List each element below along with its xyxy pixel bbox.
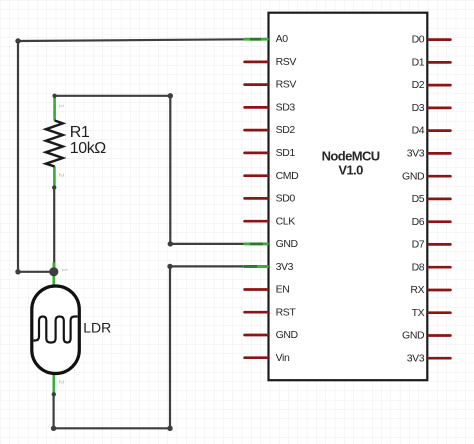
svg-text:LDR: LDR bbox=[83, 319, 111, 335]
svg-text:D6: D6 bbox=[412, 216, 425, 228]
svg-text:D1: D1 bbox=[412, 57, 425, 69]
pin SD0 (left 8) bbox=[245, 197, 268, 200]
pin 3V3 (right 15) bbox=[429, 357, 451, 360]
pin A0 (left 1) bbox=[245, 38, 268, 41]
pin SD3 (left 4) bbox=[245, 106, 268, 109]
svg-text:D2: D2 bbox=[412, 79, 425, 91]
pin GND (right 7) bbox=[429, 175, 451, 178]
pin 3V3 (left 11) bbox=[245, 265, 268, 268]
pin EN (left 12) bbox=[245, 288, 268, 291]
svg-text:3V3: 3V3 bbox=[407, 148, 425, 160]
pin 3V3 (right 6) bbox=[429, 152, 451, 155]
svg-text:SD2: SD2 bbox=[276, 124, 296, 136]
junction node A0/R1.2/LDR.1 bbox=[49, 267, 58, 276]
svg-text:RSV: RSV bbox=[276, 79, 297, 91]
LDR squiggle element bbox=[34, 317, 78, 343]
svg-text:10kΩ: 10kΩ bbox=[70, 140, 106, 157]
wire R1.1 to GND pin bbox=[55, 96, 246, 244]
svg-text:R1: R1 bbox=[70, 124, 90, 141]
pin RSV (left 2) bbox=[245, 61, 268, 64]
pin SD2 (left 5) bbox=[245, 129, 268, 132]
NodeMCU U1 body bbox=[269, 13, 428, 381]
svg-text:SD0: SD0 bbox=[276, 193, 296, 205]
pin D2 (right 3) bbox=[429, 84, 451, 87]
svg-text:Vin: Vin bbox=[276, 352, 290, 364]
pin TX (right 13) bbox=[429, 311, 451, 314]
wire R1.2 to junction bbox=[53, 188, 55, 272]
svg-text:SD1: SD1 bbox=[276, 147, 296, 159]
svg-text:D4: D4 bbox=[412, 125, 425, 137]
svg-text:D3: D3 bbox=[412, 102, 425, 114]
pin CLK (left 9) bbox=[245, 220, 268, 223]
svg-text:D0: D0 bbox=[412, 34, 425, 46]
svg-text:TX: TX bbox=[412, 307, 425, 319]
pin RX (right 12) bbox=[429, 289, 451, 292]
LDR lead 1 (green) bbox=[52, 263, 55, 287]
pin D6 (right 9) bbox=[429, 220, 451, 223]
resistor R1 lead 2 (green) bbox=[53, 166, 56, 188]
svg-text:3V3: 3V3 bbox=[407, 352, 425, 364]
pin D3 (right 4) bbox=[429, 107, 451, 110]
pin D1 (right 2) bbox=[429, 61, 451, 64]
green overlay on connected pins bbox=[244, 38, 269, 41]
pin CMD (left 7) bbox=[245, 174, 268, 177]
pin Vin (left 15) bbox=[245, 356, 268, 359]
svg-text:RST: RST bbox=[276, 306, 297, 318]
wire A0 net: bottom horizontal to junction bbox=[18, 271, 54, 273]
pin GND (left 10) bbox=[245, 243, 268, 246]
svg-text:GND: GND bbox=[276, 329, 299, 341]
svg-text:GND: GND bbox=[402, 170, 425, 182]
svg-text:A0: A0 bbox=[276, 33, 289, 45]
svg-text:CLK: CLK bbox=[276, 215, 296, 227]
svg-text:RX: RX bbox=[410, 284, 424, 296]
resistor R1 lead 1 (green) bbox=[53, 94, 56, 121]
pin RSV (left 3) bbox=[245, 83, 268, 86]
svg-text:GND: GND bbox=[276, 238, 299, 250]
wire A0 net: top horizontal bbox=[18, 39, 246, 41]
svg-text:RSV: RSV bbox=[276, 56, 297, 68]
svg-text:3V3: 3V3 bbox=[276, 261, 294, 273]
svg-text:V1.0: V1.0 bbox=[338, 162, 363, 177]
pin RST (left 13) bbox=[245, 311, 268, 314]
pin D7 (right 10) bbox=[429, 243, 451, 246]
LDR lead 2 (green) bbox=[52, 374, 55, 395]
wire A0 net: left vertical bbox=[17, 41, 19, 272]
svg-text:D7: D7 bbox=[412, 239, 425, 251]
svg-text:GND: GND bbox=[402, 330, 425, 342]
svg-text:1: 1 bbox=[61, 268, 68, 272]
svg-text:2: 2 bbox=[57, 173, 64, 177]
wire 3V3 pin to LDR.2 bbox=[54, 266, 246, 428]
pin D8 (right 11) bbox=[429, 266, 451, 269]
svg-text:EN: EN bbox=[276, 284, 290, 296]
LDR body bbox=[32, 286, 80, 374]
svg-text:SD3: SD3 bbox=[276, 102, 296, 114]
pin SD1 (left 6) bbox=[245, 152, 268, 155]
svg-text:CMD: CMD bbox=[276, 170, 300, 182]
wire bendpoint dots bbox=[15, 38, 20, 43]
svg-text:D8: D8 bbox=[412, 261, 425, 273]
svg-text:1: 1 bbox=[57, 104, 64, 108]
pin D0 (right 1) bbox=[429, 38, 451, 41]
pin D5 (right 8) bbox=[429, 198, 451, 201]
svg-text:2: 2 bbox=[57, 380, 64, 384]
svg-text:D5: D5 bbox=[412, 193, 425, 205]
pin D4 (right 5) bbox=[429, 129, 451, 132]
resistor R1 zigzag bbox=[46, 121, 63, 167]
pin GND (right 14) bbox=[429, 334, 451, 337]
pin GND (left 14) bbox=[245, 334, 268, 337]
